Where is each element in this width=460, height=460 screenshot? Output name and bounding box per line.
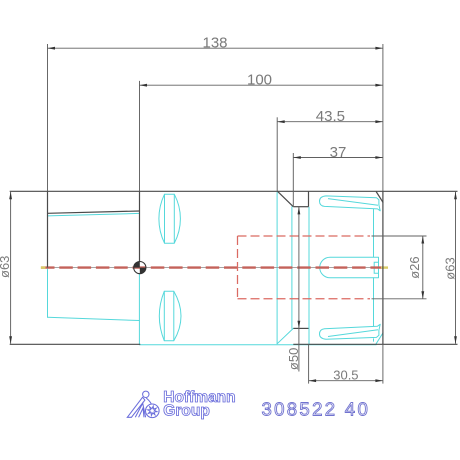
- svg-text:ø63: ø63: [0, 256, 12, 278]
- svg-text:ø50: ø50: [286, 348, 301, 370]
- svg-text:37: 37: [330, 144, 347, 161]
- svg-text:ø26: ø26: [407, 256, 422, 278]
- svg-text:308522 40: 308522 40: [262, 399, 371, 420]
- svg-text:100: 100: [247, 72, 272, 89]
- svg-text:ø63: ø63: [443, 257, 458, 279]
- svg-text:30.5: 30.5: [333, 367, 358, 382]
- svg-text:43.5: 43.5: [316, 108, 345, 125]
- svg-text:138: 138: [202, 34, 227, 51]
- svg-text:Group: Group: [163, 402, 210, 419]
